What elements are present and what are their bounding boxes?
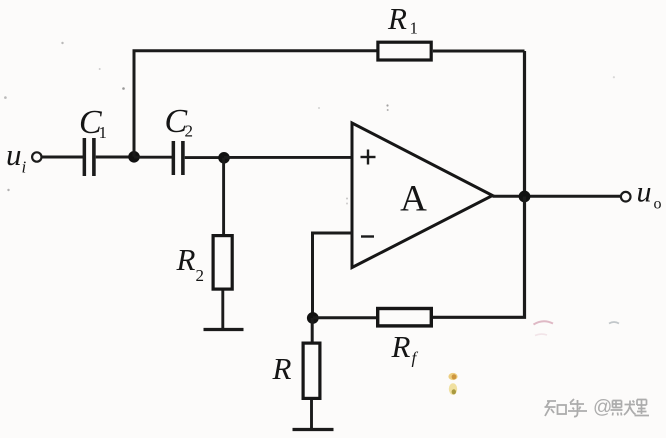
- wire R2 to ground: [221, 291, 224, 330]
- node C (output junction): [519, 191, 531, 203]
- op-amp plus pin mark: [361, 150, 376, 165]
- svg-text:@: @: [593, 397, 612, 418]
- output terminal u_o: [621, 192, 631, 202]
- ground (below R2): [204, 328, 244, 331]
- capacitor C2: [172, 141, 185, 175]
- wire inverting input to feedback node: [313, 233, 353, 318]
- svg-text:i: i: [22, 158, 27, 177]
- resistor R: [303, 343, 320, 398]
- svg-text:2: 2: [185, 122, 194, 141]
- input terminal u_i: [32, 152, 41, 161]
- resistor R1: [378, 42, 431, 60]
- wire right rail down to output node: [523, 51, 526, 197]
- resistor R2: [213, 236, 232, 290]
- wire node B to op-amp noninverting input: [224, 156, 353, 159]
- wire R to ground: [310, 400, 313, 430]
- wire C1 to node A: [96, 156, 140, 159]
- wire node D down to R: [311, 318, 314, 342]
- svg-text:1: 1: [99, 123, 108, 142]
- node D (feedback junction): [307, 312, 319, 324]
- svg-text:o: o: [654, 196, 662, 213]
- svg-text:u: u: [637, 176, 652, 209]
- node A (junction after C1): [128, 151, 140, 163]
- svg-text:R: R: [391, 329, 411, 364]
- svg-text:R: R: [387, 1, 407, 36]
- wire node A to C2: [134, 156, 172, 159]
- wire op-amp output to terminal: [493, 195, 621, 198]
- wire node B down to R2: [222, 158, 225, 235]
- wire Rf to right rail from output node: [433, 197, 525, 318]
- wire input to C1: [42, 156, 83, 159]
- ground (below R): [293, 428, 334, 431]
- wire node D to Rf: [313, 316, 377, 319]
- wire C2 to node B: [185, 156, 230, 159]
- resistor Rf: [378, 309, 432, 326]
- node B (junction after C2): [218, 152, 230, 164]
- wire node A up to top rail: [134, 51, 377, 157]
- svg-text:R: R: [176, 242, 196, 277]
- op-amp minus pin mark: [361, 235, 374, 237]
- capacitor C1: [83, 138, 96, 176]
- svg-text:1: 1: [410, 19, 419, 38]
- wire R1 to right rail: [433, 50, 525, 53]
- svg-text:u: u: [6, 137, 22, 172]
- svg-text:R: R: [272, 351, 292, 386]
- svg-text:2: 2: [196, 266, 205, 285]
- op-amp U1 (A): [352, 123, 493, 268]
- svg-text:A: A: [400, 179, 427, 220]
